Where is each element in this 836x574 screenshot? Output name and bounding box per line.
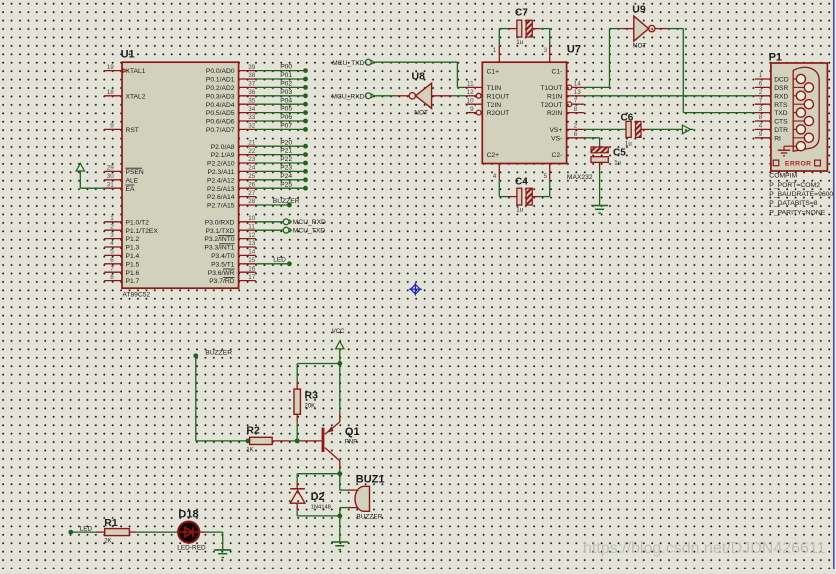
svg-text:32: 32 xyxy=(248,123,256,130)
svg-text:P2.0/A8: P2.0/A8 xyxy=(211,144,235,151)
svg-text:33: 33 xyxy=(248,114,256,121)
svg-text:MCU_RXD: MCU_RXD xyxy=(331,93,364,100)
svg-text:11: 11 xyxy=(248,223,255,230)
svg-text:P0.1/AD1: P0.1/AD1 xyxy=(206,77,235,84)
svg-text:VCC: VCC xyxy=(332,329,345,335)
svg-text:3: 3 xyxy=(544,47,548,54)
svg-text:VS+: VS+ xyxy=(549,127,562,134)
svg-text:21: 21 xyxy=(248,139,256,146)
svg-text:P1.6: P1.6 xyxy=(126,270,140,277)
svg-text:7: 7 xyxy=(759,97,763,104)
svg-text:P2.6/A14: P2.6/A14 xyxy=(207,194,235,201)
svg-text:LED: LED xyxy=(80,525,93,532)
svg-text:18: 18 xyxy=(107,89,115,96)
svg-text:2: 2 xyxy=(759,89,763,96)
svg-text:27: 27 xyxy=(248,190,256,197)
svg-text:20K: 20K xyxy=(305,404,316,410)
svg-text:MCU_TXD: MCU_TXD xyxy=(332,60,364,67)
svg-text:P03: P03 xyxy=(280,89,292,96)
svg-text:P1.7: P1.7 xyxy=(126,278,140,285)
svg-text:P2.5/A13: P2.5/A13 xyxy=(207,186,235,193)
svg-text:LED: LED xyxy=(273,257,286,264)
svg-text:R2OUT: R2OUT xyxy=(487,110,510,117)
svg-text:P02: P02 xyxy=(280,81,292,88)
svg-text:P1: P1 xyxy=(769,51,782,63)
svg-text:BUZZER: BUZZER xyxy=(205,349,232,356)
svg-text:17: 17 xyxy=(248,274,256,281)
svg-text:T2IN: T2IN xyxy=(487,102,502,109)
svg-text:8: 8 xyxy=(110,274,114,281)
svg-text:P05: P05 xyxy=(280,106,292,113)
svg-text:COMPIM: COMPIM xyxy=(769,173,797,180)
svg-text:NOT: NOT xyxy=(633,43,647,50)
svg-text:U1: U1 xyxy=(121,49,135,61)
svg-text:DTR: DTR xyxy=(774,127,788,134)
svg-text:P1.3: P1.3 xyxy=(126,245,140,252)
svg-text:https://blog.csdn.net/DJDN4266: https://blog.csdn.net/DJDN426611 xyxy=(583,540,826,557)
svg-text:U7: U7 xyxy=(567,44,581,56)
svg-text:23: 23 xyxy=(248,156,256,163)
svg-text:MAX232: MAX232 xyxy=(567,174,593,181)
svg-text:2: 2 xyxy=(110,223,114,230)
svg-text:P3.2/INT0: P3.2/INT0 xyxy=(204,236,234,243)
svg-text:P_PORT=COM2: P_PORT=COM2 xyxy=(769,182,820,189)
svg-text:P3.0/RXD: P3.0/RXD xyxy=(205,219,235,226)
svg-text:3: 3 xyxy=(110,232,114,239)
svg-text:22: 22 xyxy=(248,148,256,155)
svg-text:C2+: C2+ xyxy=(487,152,500,159)
svg-text:P0.4/AD4: P0.4/AD4 xyxy=(206,102,235,109)
svg-text:P04: P04 xyxy=(280,97,292,104)
svg-text:10: 10 xyxy=(467,97,475,104)
svg-text:7: 7 xyxy=(574,97,578,104)
svg-text:1: 1 xyxy=(759,72,763,79)
svg-text:C5: C5 xyxy=(613,147,626,158)
svg-text:U8: U8 xyxy=(412,71,426,83)
svg-text:P07: P07 xyxy=(280,123,292,130)
svg-text:19: 19 xyxy=(107,64,115,71)
svg-text:9: 9 xyxy=(110,123,114,130)
svg-text:P2.1/A9: P2.1/A9 xyxy=(211,152,235,159)
svg-text:4: 4 xyxy=(493,173,497,180)
svg-text:P3.6/WR: P3.6/WR xyxy=(208,270,235,277)
svg-text:3: 3 xyxy=(759,106,763,113)
svg-text:P22: P22 xyxy=(280,156,292,163)
svg-text:P3.3/INT1: P3.3/INT1 xyxy=(204,245,234,252)
svg-text:13: 13 xyxy=(574,89,582,96)
svg-text:14: 14 xyxy=(574,81,582,88)
svg-text:T1OUT: T1OUT xyxy=(540,85,562,92)
svg-text:8: 8 xyxy=(759,114,763,121)
svg-text:4: 4 xyxy=(759,123,763,130)
svg-text:38: 38 xyxy=(248,72,256,79)
svg-text:RXD: RXD xyxy=(774,93,788,100)
svg-text:XTAL1: XTAL1 xyxy=(126,68,146,75)
svg-text:RST: RST xyxy=(126,127,139,134)
svg-text:LED-RED: LED-RED xyxy=(177,544,206,551)
svg-text:C6: C6 xyxy=(621,112,634,123)
svg-text:5: 5 xyxy=(110,249,114,256)
svg-text:MCU_RXD: MCU_RXD xyxy=(293,219,326,226)
svg-text:16: 16 xyxy=(248,265,256,272)
svg-text:2: 2 xyxy=(574,123,578,130)
svg-text:1u: 1u xyxy=(516,40,523,46)
svg-text:P2.2/A10: P2.2/A10 xyxy=(207,161,235,168)
svg-text:BUZZER: BUZZER xyxy=(273,198,300,205)
svg-text:39: 39 xyxy=(248,64,256,71)
svg-text:1K: 1K xyxy=(246,448,253,454)
svg-text:P0.3/AD3: P0.3/AD3 xyxy=(206,93,235,100)
svg-text:P2.4/A12: P2.4/A12 xyxy=(207,177,235,184)
svg-text:P0.2/AD2: P0.2/AD2 xyxy=(206,85,235,92)
svg-text:D18: D18 xyxy=(178,509,198,521)
svg-text:P1.5: P1.5 xyxy=(126,261,140,268)
svg-text:T1IN: T1IN xyxy=(487,85,502,92)
svg-text:Q1: Q1 xyxy=(345,426,360,438)
svg-text:14: 14 xyxy=(248,249,256,256)
svg-text:10: 10 xyxy=(248,215,256,222)
svg-text:XTAL2: XTAL2 xyxy=(126,93,146,100)
svg-text:P00: P00 xyxy=(280,64,292,71)
svg-text:T2OUT: T2OUT xyxy=(540,102,562,109)
svg-text:P20: P20 xyxy=(280,139,292,146)
svg-text:9: 9 xyxy=(470,106,474,113)
svg-text:37: 37 xyxy=(248,81,256,88)
svg-text:PSEN: PSEN xyxy=(126,169,144,176)
svg-text:P0.7/AD7: P0.7/AD7 xyxy=(206,127,235,134)
svg-text:C1+: C1+ xyxy=(487,68,500,75)
svg-text:R2IN: R2IN xyxy=(547,110,562,117)
svg-text:P_BAUDRATE=9600: P_BAUDRATE=9600 xyxy=(769,191,833,198)
svg-text:P06: P06 xyxy=(280,114,292,121)
svg-text:BUZ1: BUZ1 xyxy=(356,474,385,486)
svg-text:1: 1 xyxy=(110,215,114,222)
svg-text:BUZZER: BUZZER xyxy=(356,513,382,520)
svg-text:4: 4 xyxy=(110,240,114,247)
svg-text:DCD: DCD xyxy=(774,77,789,84)
svg-text:P1.4: P1.4 xyxy=(126,253,140,260)
svg-text:R2: R2 xyxy=(246,424,260,436)
svg-text:RI: RI xyxy=(774,135,781,142)
svg-text:C4: C4 xyxy=(515,177,528,188)
svg-text:PNP: PNP xyxy=(345,440,357,446)
svg-text:P1.0/T2: P1.0/T2 xyxy=(126,219,150,226)
svg-text:12: 12 xyxy=(248,232,256,239)
svg-text:DSR: DSR xyxy=(774,85,788,92)
svg-text:C2-: C2- xyxy=(552,152,563,159)
svg-text:31: 31 xyxy=(107,181,115,188)
svg-text:5: 5 xyxy=(544,173,548,180)
svg-text:6: 6 xyxy=(110,257,114,264)
svg-text:15: 15 xyxy=(248,257,256,264)
svg-text:P2.3/A11: P2.3/A11 xyxy=(207,169,234,176)
svg-text:9: 9 xyxy=(759,131,763,138)
svg-text:1u: 1u xyxy=(614,160,621,166)
svg-text:P3.4/T0: P3.4/T0 xyxy=(211,253,235,260)
svg-text:C7: C7 xyxy=(515,7,528,18)
svg-text:TXD: TXD xyxy=(774,110,788,117)
svg-text:P0.6/AD6: P0.6/AD6 xyxy=(206,119,235,126)
svg-text:AT89C52: AT89C52 xyxy=(122,291,150,298)
svg-text:P3.5/T1: P3.5/T1 xyxy=(211,261,235,268)
svg-text:P2.7/A15: P2.7/A15 xyxy=(207,203,235,210)
svg-text:6: 6 xyxy=(574,131,578,138)
svg-text:R3: R3 xyxy=(305,390,319,402)
svg-text:36: 36 xyxy=(248,89,256,96)
svg-text:EA: EA xyxy=(126,186,135,193)
svg-text:R1: R1 xyxy=(104,517,118,529)
svg-text:P23: P23 xyxy=(280,165,292,172)
svg-text:24: 24 xyxy=(248,165,256,172)
svg-text:7: 7 xyxy=(110,265,114,272)
svg-text:2K: 2K xyxy=(104,539,111,545)
svg-text:1N4148: 1N4148 xyxy=(311,505,331,511)
svg-text:P0.5/AD5: P0.5/AD5 xyxy=(206,110,235,117)
svg-text:CTS: CTS xyxy=(774,119,788,126)
svg-text:26: 26 xyxy=(248,181,256,188)
svg-text:C1-: C1- xyxy=(552,68,563,75)
svg-text:6: 6 xyxy=(759,81,763,88)
svg-text:P_DATABITS=8: P_DATABITS=8 xyxy=(769,200,818,207)
svg-text:VS-: VS- xyxy=(551,135,562,142)
svg-text:ERROR: ERROR xyxy=(785,161,812,168)
svg-text:P3.1/TXD: P3.1/TXD xyxy=(206,228,235,235)
svg-text:P3.7/RD: P3.7/RD xyxy=(209,278,234,285)
svg-text:30: 30 xyxy=(107,173,115,180)
svg-text:RTS: RTS xyxy=(774,102,788,109)
svg-text:13: 13 xyxy=(248,240,256,247)
svg-text:28: 28 xyxy=(248,198,256,205)
svg-text:P01: P01 xyxy=(280,72,292,79)
svg-text:R1IN: R1IN xyxy=(547,93,562,100)
svg-text:ALE: ALE xyxy=(126,177,139,184)
svg-text:1u: 1u xyxy=(625,142,632,148)
svg-text:25: 25 xyxy=(248,173,256,180)
svg-text:NOT: NOT xyxy=(414,110,428,117)
svg-text:U9: U9 xyxy=(632,4,646,16)
svg-text:P1.1/T2EX: P1.1/T2EX xyxy=(126,228,159,235)
svg-text:P0.0/AD0: P0.0/AD0 xyxy=(206,68,235,75)
svg-text:29: 29 xyxy=(107,165,115,172)
svg-text:R1OUT: R1OUT xyxy=(487,93,510,100)
svg-text:34: 34 xyxy=(248,106,256,113)
svg-text:8: 8 xyxy=(574,106,578,113)
svg-text:11: 11 xyxy=(467,81,474,88)
svg-text:1: 1 xyxy=(493,47,497,54)
svg-text:P25: P25 xyxy=(280,181,292,188)
svg-text:35: 35 xyxy=(248,97,256,104)
svg-text:12: 12 xyxy=(467,89,475,96)
svg-text:P1.2: P1.2 xyxy=(126,236,140,243)
svg-text:D2: D2 xyxy=(311,491,325,503)
svg-text:P_PARITY=NONE: P_PARITY=NONE xyxy=(769,209,825,216)
svg-text:1u: 1u xyxy=(516,208,523,214)
svg-text:MCU_TXD: MCU_TXD xyxy=(293,228,325,235)
svg-text:P24: P24 xyxy=(280,173,292,180)
svg-text:P21: P21 xyxy=(280,148,292,155)
